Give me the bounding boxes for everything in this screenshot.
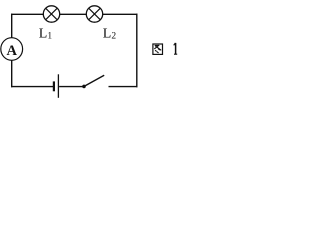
battery negative plate — [53, 81, 55, 91]
wire switch to corner — [109, 86, 138, 88]
svg-text:L1: L1 — [39, 26, 53, 41]
wire battery to switch — [59, 86, 83, 88]
switch S pivot — [82, 85, 86, 89]
wire top right segment — [102, 13, 137, 15]
wire right vertical — [136, 14, 138, 88]
battery positive plate — [57, 74, 59, 98]
label figure number 1 — [174, 43, 178, 54]
wire bottom to battery — [11, 86, 53, 88]
wire between lamps — [59, 13, 86, 15]
switch S blade — [84, 75, 104, 86]
wire top left segment — [11, 13, 43, 15]
wire left vertical bottom — [11, 59, 13, 87]
ammeter A1 — [1, 38, 23, 61]
lamp L1 — [43, 6, 59, 22]
lamp L2 — [86, 6, 102, 22]
svg-text:A: A — [6, 43, 17, 59]
label 图1 (figure 1) drawn glyph — [153, 44, 163, 54]
wire left vertical top — [11, 14, 13, 39]
svg-text:L2: L2 — [103, 26, 117, 41]
